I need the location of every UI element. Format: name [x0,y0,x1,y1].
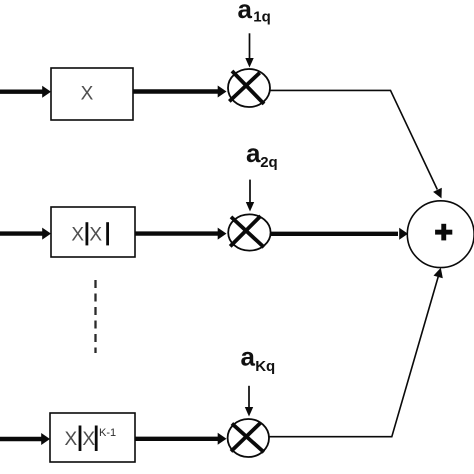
svg-text:X: X [89,225,102,246]
svg-text:1q: 1q [253,9,271,26]
svg-text:X: X [64,429,77,450]
wire: multiplier M3 to summer (corner) [269,268,443,437]
wire: input arrow into block B2 [0,228,51,240]
multiplier M2 [228,214,270,250]
multiplier M1 [228,69,270,107]
svg-text:a: a [238,0,253,24]
svg-text:Kq: Kq [255,358,275,375]
wire: a2q arrow into multiplier M2 [246,180,254,212]
svg-text:a: a [246,138,261,168]
label a2q: coefficient [246,138,278,171]
svg-text:X: X [82,429,95,450]
wire: multiplier M1 to summer (corner) [270,90,442,198]
summer S1 [407,201,474,268]
wire: multiplier M2 to summer (thick) [271,228,408,240]
block B1: branch function X [51,68,133,120]
svg-text:K-1: K-1 [99,427,116,439]
multiplier M3 [228,419,269,457]
wire: block B3 to multiplier M3 [135,433,227,445]
label a1q: coefficient [238,0,271,26]
dashed ellipsis between branch 2 and branch K [94,280,96,353]
wire: a1q arrow into multiplier M1 [245,33,253,67]
wire: block B1 to multiplier M1 [133,86,227,98]
svg-text:a: a [241,342,256,372]
label aKq: coefficient [241,342,276,375]
wire: input arrow into block B1 [0,86,51,98]
wire: aKq arrow into multiplier M3 [245,386,253,417]
block B3: branch function x|x|^(K-1) [50,413,135,462]
svg-text:X: X [81,84,94,105]
block B2: branch function x|x| [51,207,135,257]
wire: block B2 to multiplier M2 [135,228,227,240]
svg-text:2q: 2q [260,154,278,171]
wire: input arrow into block B3 [0,433,50,445]
svg-text:X: X [71,225,84,246]
